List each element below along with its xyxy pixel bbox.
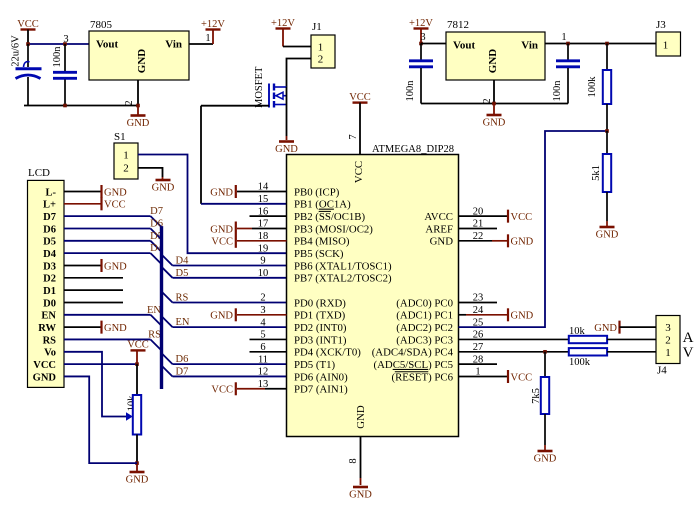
wire MCU pin 25 (PC2) to divider junction (459, 131, 608, 327)
svg-text:GND: GND (127, 118, 150, 129)
svg-text:GND: GND (594, 323, 617, 334)
svg-text:GND: GND (104, 323, 127, 334)
junction pot bottom (135, 461, 139, 465)
svg-text:J3: J3 (656, 19, 666, 31)
ground below potentiometer (130, 471, 145, 474)
ground below MCU (353, 486, 368, 489)
wire MCU pin 1 to VCC label (459, 376, 509, 378)
svg-text:8: 8 (348, 458, 359, 463)
svg-text:(RESET) PC6: (RESET) PC6 (392, 371, 454, 383)
wire ground rail top-left (24, 105, 138, 107)
wire MCU pin 5 stub (250, 338, 287, 340)
svg-text:D4: D4 (43, 249, 57, 260)
svg-text:GND: GND (355, 405, 367, 429)
svg-text:PB3 (MOSI/OC2): PB3 (MOSI/OC2) (294, 223, 373, 235)
svg-text:1: 1 (663, 40, 669, 52)
svg-text:11: 11 (258, 354, 268, 365)
svg-text:AREF: AREF (425, 223, 453, 235)
svg-text:1: 1 (665, 347, 671, 359)
svg-text:VCC: VCC (211, 385, 233, 396)
svg-text:PD0 (RXD): PD0 (RXD) (294, 297, 346, 309)
junction Vin/C4 (566, 42, 570, 46)
svg-text:VCC: VCC (127, 340, 149, 351)
svg-text:GND: GND (33, 372, 57, 383)
IC U1 ATMEGA8_DIP28 body (287, 155, 459, 437)
svg-text:PB1 (OC1A): PB1 (OC1A) (294, 199, 351, 211)
svg-text:GND: GND (126, 475, 149, 486)
wire +12V stub to J1 pin 1 (282, 29, 284, 47)
power port VCC at pin 13 (235, 382, 237, 395)
power port GND at LCD D3 (100, 259, 102, 272)
ground below 7k5 (538, 450, 553, 453)
wire 7812 Vin to J3 (545, 43, 656, 45)
svg-text:3: 3 (420, 32, 425, 43)
svg-text:PD2 (INT0): PD2 (INT0) (294, 322, 347, 334)
wire LCD D2 stub (64, 277, 123, 279)
regulator U2 7805 (89, 31, 189, 80)
svg-text:D5: D5 (176, 268, 189, 279)
wire ground rail 7812 (421, 103, 568, 105)
power port GND at LCD RW (100, 321, 102, 334)
wire bus to MCU EN (162, 316, 173, 327)
wire MCU pin 16 stub (250, 215, 287, 217)
svg-text:GND: GND (596, 230, 619, 241)
wire MCU pin 23 stub (459, 301, 498, 303)
ground below 5k1 (600, 226, 615, 229)
svg-text:100k: 100k (587, 76, 598, 98)
connector J1 (311, 35, 335, 68)
svg-text:GND: GND (349, 490, 372, 501)
wire S1 pin2 to ground (138, 168, 163, 177)
wire MCU pin 3 to GND label (237, 314, 287, 316)
svg-text:3: 3 (665, 322, 671, 334)
junction rail/7805 pin2 (136, 104, 140, 108)
wire MCU pin 8 to ground (360, 437, 362, 479)
svg-text:D7: D7 (176, 366, 189, 377)
svg-text:PD1 (TXD): PD1 (TXD) (294, 310, 346, 322)
svg-text:Vout: Vout (96, 39, 119, 51)
svg-text:PB6 (XTAL1/TOSC1): PB6 (XTAL1/TOSC1) (294, 260, 392, 272)
wire 7805 GND pin 2 (137, 80, 139, 106)
regulator U3 7812 (446, 32, 545, 80)
svg-text:12: 12 (258, 367, 269, 378)
svg-text:(ADC5/SCL) PC5: (ADC5/SCL) PC5 (373, 359, 453, 371)
junction pin27/7k5 (543, 350, 547, 354)
svg-text:D7: D7 (150, 206, 163, 217)
svg-text:GND: GND (152, 183, 175, 194)
wire LCD L+ to VCC label (64, 203, 102, 205)
junction at C2 top (63, 42, 67, 46)
svg-text:2: 2 (665, 334, 671, 346)
wire +12V stub (212, 30, 214, 45)
svg-text:D3: D3 (43, 261, 56, 272)
svg-text:100n: 100n (52, 46, 63, 68)
svg-text:100k: 100k (569, 357, 591, 368)
wire MCU pin 27 to 100k (459, 351, 569, 353)
svg-text:PB2 (SS/OC1B): PB2 (SS/OC1B) (294, 211, 366, 223)
wire LCD L- to GND label (64, 191, 102, 193)
wire LCD RS to bus (64, 338, 151, 340)
svg-text:2: 2 (260, 293, 265, 304)
svg-text:5k1: 5k1 (591, 165, 602, 181)
svg-text:PD4 (XCK/T0): PD4 (XCK/T0) (294, 347, 361, 359)
wire MCU pin 26 to 10k (459, 338, 569, 340)
wire junction down to pot top (136, 364, 138, 395)
svg-text:(ADC2) PC2: (ADC2) PC2 (396, 322, 453, 334)
wire LCD EN to bus (64, 314, 151, 316)
wire LCD D7 to bus (64, 215, 151, 217)
svg-text:VCC: VCC (349, 92, 371, 103)
svg-text:GND: GND (210, 187, 233, 198)
svg-text:PD3 (INT1): PD3 (INT1) (294, 334, 347, 346)
power port GND at pin 17 (235, 221, 237, 247)
svg-text:VCC: VCC (33, 360, 56, 371)
svg-text:GND: GND (487, 49, 499, 74)
wire MCU pin 22 to GND label (459, 240, 493, 242)
svg-text:GND: GND (511, 237, 534, 248)
svg-text:RS: RS (43, 335, 57, 346)
wire LCD D6 to bus (64, 227, 151, 229)
svg-text:19: 19 (258, 243, 269, 254)
wire bus to MCU D7 (162, 365, 173, 376)
wire MCU pin 13 to VCC label (237, 388, 265, 390)
svg-text:22u/6V: 22u/6V (11, 35, 22, 67)
wire stub to ground (137, 106, 139, 115)
svg-text:1: 1 (123, 150, 129, 162)
svg-text:PB5 (SCK): PB5 (SCK) (294, 248, 344, 260)
wire bus to MCU RS (162, 291, 173, 302)
svg-text:2: 2 (123, 163, 129, 175)
svg-text:(ADC3) PC3: (ADC3) PC3 (396, 334, 453, 346)
svg-text:7: 7 (348, 134, 359, 139)
wire S1 pin1 to PB5 pin 19 (138, 155, 287, 254)
wire 7805 Vin to +12V (189, 43, 213, 45)
svg-text:PD5 (T1): PD5 (T1) (294, 359, 335, 371)
wire MCU pin 14 to GND label (237, 191, 287, 193)
svg-text:100n: 100n (405, 80, 416, 102)
svg-text:L+: L+ (43, 200, 56, 211)
svg-text:A: A (683, 330, 694, 346)
svg-text:D6: D6 (176, 354, 189, 365)
wire MOSFET source to ground (286, 105, 288, 137)
svg-text:3: 3 (63, 34, 68, 45)
wire LCD D0 stub (64, 301, 123, 303)
wire MOSFET gate to PB1 pin 15 (201, 105, 269, 107)
wire LCD D1 stub (64, 289, 123, 291)
wire LCD GND to ground junction (64, 376, 137, 463)
wire LCD VCC row (64, 363, 137, 365)
power port GND at pin 24 (507, 308, 509, 321)
junction Vin/R 100k (605, 42, 609, 46)
svg-text:D7: D7 (43, 212, 56, 223)
svg-text:2: 2 (318, 54, 324, 66)
svg-text:PD7 (AIN1): PD7 (AIN1) (294, 384, 348, 396)
svg-text:D4: D4 (176, 255, 190, 266)
svg-text:10: 10 (258, 268, 269, 279)
power port GND at pin 14 (235, 185, 237, 198)
wire LCD D5 to bus (64, 240, 151, 242)
svg-text:GND: GND (275, 144, 298, 155)
junction divider node (605, 129, 609, 133)
svg-text:1: 1 (318, 42, 324, 54)
wire VCC to MCU pin 7 (359, 103, 361, 155)
svg-text:EN: EN (176, 317, 190, 328)
junction rail/7812 pin2 (492, 102, 496, 106)
power port VCC at pin 20 (507, 210, 509, 223)
wire GND to J4 pin 3 (620, 326, 657, 328)
svg-text:VCC: VCC (511, 212, 533, 223)
power port VCC at pin 1 (507, 370, 509, 383)
power port VCC at LCD L+ (100, 197, 102, 210)
ground below MOSFET (279, 140, 294, 143)
junction at VCC/C1 (26, 42, 30, 46)
svg-text:J1: J1 (312, 21, 322, 33)
svg-text:GND: GND (483, 118, 506, 129)
junction VCC/pot (135, 362, 139, 366)
wire bus to MCU D5 (162, 267, 173, 278)
overline on SS (PB2) (319, 210, 331, 212)
wire MCU pin 24 to GND label (459, 314, 467, 316)
svg-text:D1: D1 (43, 286, 56, 297)
svg-text:EN: EN (41, 311, 56, 322)
svg-text:7805: 7805 (90, 19, 113, 31)
wire bus to MCU D4 (162, 254, 173, 265)
svg-text:D6: D6 (43, 224, 56, 235)
wire MCU pin 6 stub (250, 351, 287, 353)
svg-text:VCC: VCC (511, 372, 533, 383)
svg-text:PB0 (ICP): PB0 (ICP) (294, 186, 340, 198)
svg-text:100n: 100n (552, 80, 563, 102)
wire VCC stub to junction (136, 350, 138, 364)
wire LCD D3 to GND label (64, 264, 102, 266)
svg-text:RS: RS (176, 292, 189, 303)
svg-text:(ADC0) PC0: (ADC0) PC0 (396, 297, 453, 309)
wire pot bottom to ground junction (136, 435, 138, 464)
ground below 7812 (487, 114, 502, 117)
svg-text:Vo: Vo (44, 348, 56, 359)
svg-text:Vin: Vin (521, 40, 538, 52)
wire MCU pin 18 to VCC label (237, 240, 287, 242)
svg-text:7812: 7812 (447, 19, 469, 31)
svg-text:1: 1 (561, 32, 566, 43)
svg-text:ATMEGA8_DIP28: ATMEGA8_DIP28 (372, 143, 454, 155)
connector J4 (656, 316, 680, 364)
svg-text:4: 4 (260, 317, 266, 328)
svg-text:GND: GND (430, 236, 454, 248)
svg-text:VCC: VCC (211, 237, 233, 248)
svg-text:15: 15 (258, 194, 269, 205)
svg-text:PB4 (MISO): PB4 (MISO) (294, 236, 350, 248)
svg-text:Vout: Vout (453, 40, 476, 52)
svg-text:RW: RW (38, 323, 56, 334)
svg-text:J4: J4 (657, 365, 667, 377)
svg-text:GND: GND (511, 311, 534, 322)
junction rail/C2 (63, 104, 67, 108)
svg-text:S1: S1 (114, 131, 126, 143)
wire LCD RW to GND label (64, 326, 102, 328)
wire LCD Vo to potentiometer wiper (64, 352, 126, 417)
svg-text:Vin: Vin (165, 39, 182, 51)
wire +12V stub (420, 29, 422, 44)
svg-text:(ADC1) PC1: (ADC1) PC1 (396, 310, 453, 322)
svg-text:RS: RS (148, 329, 161, 340)
wire bus to MCU D6 (162, 353, 173, 364)
wire +12V to 7812 Vout (421, 43, 446, 45)
svg-text:LCD: LCD (28, 167, 50, 179)
wire 10k to J4 pin 2 (607, 338, 656, 340)
wire LCD D4 to bus (64, 252, 151, 254)
wire MCU pin 28 stub (459, 363, 498, 365)
power port GND at J4 pin 3 (618, 321, 620, 334)
svg-text:(ADC4/SDA) PC4: (ADC4/SDA) PC4 (372, 347, 454, 359)
wire +12V to J1 pin1 (283, 46, 311, 48)
junction +12V/C3 (419, 42, 423, 46)
svg-text:MOSFET: MOSFET (254, 66, 265, 108)
wire 100k to J4 pin 1 (607, 351, 656, 353)
wire VCC stub to rail (27, 30, 29, 45)
wire 7812 GND pin 2 (493, 80, 495, 104)
svg-text:GND: GND (210, 224, 233, 235)
svg-text:V: V (683, 345, 694, 361)
svg-text:AVCC: AVCC (424, 211, 453, 223)
overline on RESET (PC6) (395, 371, 429, 373)
svg-text:PB7 (XTAL2/TOSC2): PB7 (XTAL2/TOSC2) (294, 273, 392, 285)
power port GND at pin 22 (507, 234, 509, 247)
svg-text:PD6 (AIN0): PD6 (AIN0) (294, 371, 348, 383)
svg-text:1: 1 (205, 33, 210, 44)
svg-text:GND: GND (104, 187, 127, 198)
wire MCU pin 17 to GND label (237, 227, 252, 229)
wire MCU pin 20 to VCC label (459, 215, 509, 217)
svg-text:GND: GND (534, 454, 557, 465)
svg-text:EN: EN (147, 305, 161, 316)
bus (LCD data/control) (160, 226, 163, 389)
wire J1 pin2 to MOSFET drain (287, 59, 312, 88)
ground below S1 (156, 179, 171, 182)
power port GND at pin 3 (235, 308, 237, 321)
svg-text:9: 9 (260, 256, 265, 267)
wire VCC node to 7805 Vout (28, 43, 89, 45)
svg-text:VCC: VCC (104, 200, 126, 211)
svg-text:D0: D0 (43, 298, 56, 309)
svg-text:GND: GND (104, 261, 127, 272)
wire MCU pin 21 stub (459, 227, 498, 229)
svg-text:D2: D2 (43, 274, 56, 285)
svg-text:L-: L- (46, 187, 57, 198)
svg-text:GND: GND (210, 311, 233, 322)
power port GND at LCD L- (100, 185, 102, 198)
svg-text:VCC: VCC (353, 161, 365, 183)
svg-text:D5: D5 (43, 237, 56, 248)
ground below 7805 (131, 114, 146, 117)
svg-text:GND: GND (136, 49, 148, 74)
